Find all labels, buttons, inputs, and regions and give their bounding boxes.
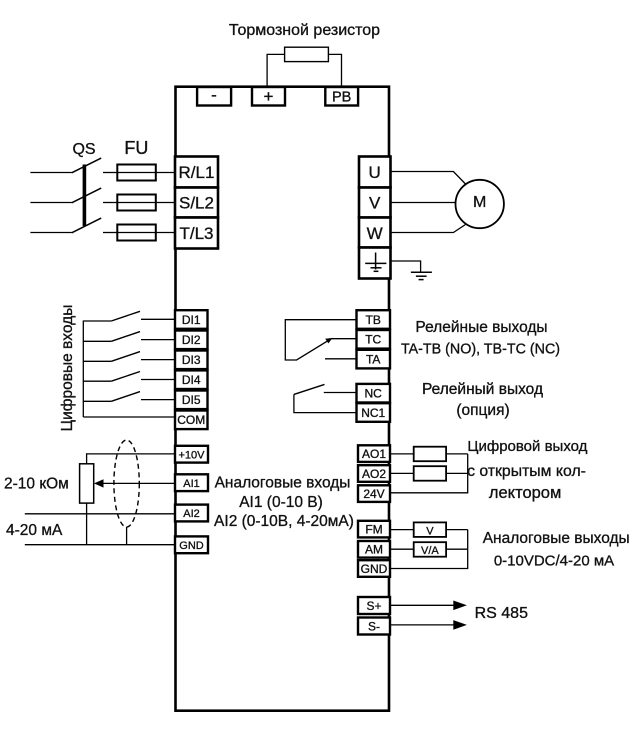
svg-text:+10V: +10V (179, 449, 206, 461)
svg-text:с открытым кол-: с открытым кол- (467, 463, 586, 480)
wire TA (325, 358, 357, 360)
terminal DI3 (175, 351, 208, 370)
switch DI3 (83, 352, 175, 362)
svg-text:4-20 мА: 4-20 мА (6, 522, 63, 539)
svg-text:W: W (367, 224, 383, 243)
inverter main body U1 (176, 87, 390, 711)
wire AM (391, 548, 468, 550)
terminal plus (252, 87, 285, 106)
terminal R/L1 (175, 157, 218, 188)
svg-text:V/A: V/A (421, 545, 439, 557)
switch DI1 (83, 311, 175, 321)
wire TB (285, 320, 356, 360)
svg-text:R/L1: R/L1 (179, 163, 215, 182)
load resistor AO2 (414, 466, 446, 481)
svg-text:AI2: AI2 (183, 508, 200, 520)
svg-text:Аналоговые выходы: Аналоговые выходы (483, 530, 630, 547)
wire S+ arrow (391, 604, 456, 606)
wire QS to FU phase T (103, 232, 117, 234)
wire AI1 wiper (100, 482, 175, 484)
terminal TB (357, 310, 391, 329)
switch DI5 (83, 392, 175, 402)
svg-text:DI4: DI4 (182, 373, 201, 387)
wire QS to FU phase R (103, 172, 117, 174)
fuse FU1 (117, 165, 156, 181)
wire potentiometer bottom to GND (86, 503, 88, 545)
meter V/A (414, 542, 446, 557)
terminal T/L3 (175, 218, 218, 249)
svg-text:+: + (264, 87, 274, 106)
voltmeter V (414, 522, 446, 537)
svg-text:(опция): (опция) (456, 402, 509, 419)
wire FM (391, 529, 468, 531)
svg-text:TA: TA (366, 353, 380, 367)
potentiometer 2-10 kOhm (80, 464, 94, 503)
svg-text:V: V (369, 194, 381, 213)
wire braking resistor to + terminal (267, 54, 285, 86)
svg-text:Тормозной резистор: Тормозной резистор (229, 22, 380, 39)
terminal GND output (358, 560, 390, 577)
svg-text:AO2: AO2 (362, 467, 386, 481)
terminal U (359, 157, 391, 188)
svg-text:-: - (211, 86, 217, 105)
terminal AO2 (358, 465, 390, 482)
terminal minus (197, 86, 231, 106)
svg-text:0-10VDC/4-20 мА: 0-10VDC/4-20 мА (494, 553, 614, 570)
shield drain wire (126, 527, 128, 545)
terminal W (359, 218, 391, 248)
svg-text:RS 485: RS 485 (475, 605, 528, 622)
wire U to motor (391, 172, 466, 185)
relay blade NC (294, 384, 325, 394)
svg-text:PB: PB (332, 90, 351, 106)
terminal TA (357, 350, 391, 369)
digital input bus wire (82, 321, 84, 418)
svg-text:Релейные выходы: Релейные выходы (415, 319, 547, 336)
svg-text:M: M (473, 194, 486, 211)
switch DI4 (83, 372, 175, 382)
svg-text:Цифровой выход: Цифровой выход (467, 438, 587, 455)
wire phase T input (30, 232, 71, 234)
svg-text:AI1: AI1 (183, 478, 200, 490)
switch QS blade 2 (72, 188, 102, 203)
switch QS blade 3 (72, 218, 102, 233)
svg-text:DI2: DI2 (182, 333, 201, 347)
svg-text:2-10 кОм: 2-10 кОм (4, 476, 69, 493)
terminal NC1 (357, 403, 391, 422)
wire +10V to potentiometer (87, 454, 175, 464)
wire S- arrow (391, 624, 456, 626)
svg-text:AM: AM (365, 543, 383, 557)
terminal V (359, 188, 391, 218)
svg-text:NC: NC (365, 387, 383, 401)
svg-text:T/L3: T/L3 (179, 224, 213, 243)
wire NC1 (294, 394, 357, 412)
terminal DI5 (175, 391, 208, 410)
terminal GND analog input (175, 536, 208, 553)
svg-text:QS: QS (72, 141, 95, 158)
terminal AO1 (358, 445, 390, 462)
wire phase R input (30, 172, 71, 174)
wire TC (332, 338, 357, 340)
svg-text:AI2 (0-10В, 4-20мА): AI2 (0-10В, 4-20мА) (214, 513, 354, 530)
wire AO2 (391, 472, 468, 474)
svg-text:TC: TC (365, 333, 381, 347)
wire braking resistor to PB terminal (328, 54, 341, 86)
fuse FU2 (117, 195, 156, 211)
braking resistor RB (285, 47, 329, 61)
load resistor AO1 (414, 447, 446, 462)
svg-text:Релейный выход: Релейный выход (422, 381, 543, 398)
terminal TC (357, 330, 391, 349)
fuse FU3 (117, 225, 156, 241)
wire GND analog (25, 544, 175, 546)
terminal PE (359, 248, 391, 279)
svg-text:S/L2: S/L2 (179, 194, 214, 213)
svg-text:GND: GND (361, 562, 388, 576)
wire QS to FU phase S (103, 202, 117, 204)
terminal S/L2 (175, 188, 218, 218)
wire AO1 (391, 453, 468, 455)
wire phase S input (30, 202, 71, 204)
switch QS blade 1 (72, 158, 102, 173)
svg-text:AO1: AO1 (362, 447, 386, 461)
svg-text:TB: TB (366, 313, 381, 327)
terminal AI1 (175, 474, 208, 491)
wire NC (324, 392, 357, 394)
wire join to 24V (391, 454, 468, 493)
terminal DI1 (175, 310, 208, 329)
terminal NC (357, 384, 391, 403)
terminal PB (325, 87, 358, 106)
svg-text:U: U (369, 163, 381, 182)
svg-text:24V: 24V (363, 487, 384, 501)
svg-text:DI3: DI3 (182, 353, 201, 367)
svg-text:лектором: лектором (489, 484, 561, 502)
terminal DI2 (175, 331, 208, 350)
motor M (456, 180, 504, 228)
wire PE to earth (391, 261, 421, 272)
terminal DI4 (175, 370, 208, 389)
terminal S+ (358, 597, 390, 614)
svg-text:S+: S+ (366, 599, 381, 613)
cable shield ellipse (114, 440, 139, 527)
terminal S- (358, 618, 390, 635)
wire V to motor (391, 202, 456, 204)
svg-text:NC1: NC1 (361, 406, 385, 420)
svg-text:Аналоговые входы: Аналоговые входы (215, 474, 351, 491)
terminal COM (175, 411, 208, 430)
svg-text:DI1: DI1 (182, 313, 201, 327)
wire COM (83, 416, 175, 418)
terminal AI2 (175, 505, 208, 522)
svg-text:AI1 (0-10 В): AI1 (0-10 В) (239, 494, 323, 511)
svg-text:V: V (426, 525, 434, 537)
switch DI2 (83, 332, 175, 342)
svg-text:COM: COM (177, 413, 205, 427)
svg-text:FM: FM (365, 522, 382, 536)
svg-text:DI5: DI5 (182, 393, 201, 407)
switch QS mechanical link bar (83, 165, 87, 227)
terminal +10V (175, 446, 208, 463)
svg-text:S-: S- (368, 619, 380, 633)
terminal AM (358, 541, 390, 558)
terminal FM (358, 521, 390, 538)
svg-text:GND: GND (179, 540, 204, 552)
svg-text:Цифровые входы: Цифровые входы (59, 305, 76, 432)
ground (411, 272, 432, 279)
svg-text:TA-TB (NO), TB-TC (NC): TA-TB (NO), TB-TC (NC) (401, 342, 560, 358)
svg-text:FU: FU (124, 138, 148, 158)
wire join to GND (391, 530, 468, 569)
terminal 24V (358, 485, 390, 502)
wire AI2 (25, 513, 175, 515)
relay blade TB-TC (296, 341, 328, 361)
wire W to motor (391, 225, 466, 233)
